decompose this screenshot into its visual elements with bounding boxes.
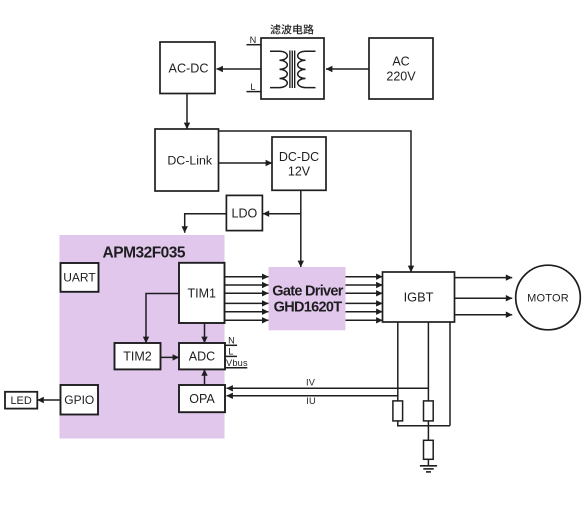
- svg-text:GPIO: GPIO: [64, 393, 94, 407]
- wire gate signal G1 Gate Driver to IGBT: [346, 276, 383, 278]
- wire gate signal G6 Gate Driver to IGBT: [346, 319, 383, 321]
- block OPA: [179, 385, 225, 412]
- pin Vbus (ADC input): [225, 358, 248, 368]
- block LED indicator: [5, 392, 37, 409]
- wire filter to AC-DC: [217, 68, 262, 70]
- svg-text:L: L: [250, 82, 255, 92]
- pin N (ADC input): [225, 336, 237, 346]
- svg-text:Gate Driver: Gate Driver: [272, 284, 344, 300]
- block LDO regulator: [226, 195, 262, 230]
- MCU block APM32F035 (background region): [60, 235, 225, 439]
- svg-text:ADC: ADC: [189, 350, 215, 364]
- wire motor phase 3 IGBT to MOTOR: [455, 314, 513, 316]
- wire IGBT leg U: [397, 322, 399, 401]
- svg-text:N: N: [250, 35, 257, 45]
- wire bus to resistor R3: [427, 426, 429, 441]
- svg-text:OPA: OPA: [189, 392, 215, 406]
- wire GPIO to LED: [37, 399, 59, 401]
- wire DC-DC to Gate Driver (12V): [300, 190, 302, 267]
- svg-text:LED: LED: [10, 395, 31, 407]
- svg-text:220V: 220V: [386, 69, 416, 83]
- block AC-DC converter: [160, 42, 215, 94]
- label 滤波电路 (filter circuit): [270, 24, 313, 34]
- wire PWM2 TIM1 to Gate Driver: [225, 284, 269, 286]
- wire motor phase 1 IGBT to MOTOR: [455, 277, 513, 279]
- svg-text:N: N: [228, 336, 235, 346]
- wire shunt U to bus: [397, 421, 399, 426]
- svg-text:IGBT: IGBT: [404, 290, 434, 305]
- wire PWM3 TIM1 to Gate Driver: [225, 292, 269, 294]
- svg-text:TIM1: TIM1: [188, 286, 217, 300]
- block DC-DC 12V: [272, 137, 326, 190]
- ground symbol: [420, 466, 437, 472]
- terminal L (filter live stub): [247, 82, 262, 92]
- svg-text:12V: 12V: [288, 165, 311, 179]
- wire PWM1 TIM1 to Gate Driver: [225, 276, 269, 278]
- wire LDO to MCU: [185, 214, 227, 233]
- svg-text:DC-DC: DC-DC: [279, 150, 319, 164]
- wire PWM5 TIM1 to Gate Driver: [225, 311, 269, 313]
- svg-text:UART: UART: [63, 271, 96, 285]
- wire motor phase 2 IGBT to MOTOR: [455, 297, 513, 299]
- svg-text:AC: AC: [392, 55, 409, 69]
- wire IGBT leg W: [449, 322, 451, 426]
- wire bottom bus: [397, 425, 450, 427]
- wire IU current sense to OPA: [227, 396, 398, 406]
- motor M: [516, 265, 581, 330]
- svg-text:MOTOR: MOTOR: [527, 293, 569, 305]
- wire gate signal G4 Gate Driver to IGBT: [346, 302, 383, 304]
- resistor R3 (to ground): [424, 440, 434, 459]
- wire PWM6 TIM1 to Gate Driver: [225, 319, 269, 321]
- wire gate signal G3 Gate Driver to IGBT: [346, 292, 383, 294]
- wire gate signal G2 Gate Driver to IGBT: [346, 284, 383, 286]
- svg-text:DC-Link: DC-Link: [167, 154, 213, 168]
- wire TIM2 to ADC: [161, 356, 180, 358]
- svg-text:LDO: LDO: [232, 207, 258, 221]
- gate driver U2 GHD1620T (purple block): [269, 267, 346, 330]
- shunt resistor RV: [424, 401, 434, 421]
- wire AC-DC to DC-Link: [186, 93, 188, 129]
- svg-text:IU: IU: [306, 396, 316, 406]
- wire TIM1 to ADC: [204, 323, 206, 343]
- block TIM2: [115, 343, 161, 369]
- wire IV current sense to OPA: [227, 378, 429, 389]
- svg-text:TIM2: TIM2: [123, 350, 152, 364]
- wire DC-Link to IGBT (DC bus): [219, 131, 412, 272]
- svg-text:AC-DC: AC-DC: [169, 61, 209, 75]
- terminal N (filter neutral stub): [247, 35, 262, 45]
- wire R3 to ground: [427, 459, 429, 466]
- block DC-Link: [155, 129, 219, 191]
- block AC 220V source: [369, 38, 433, 99]
- wire IGBT leg V: [427, 322, 429, 401]
- block TIM1: [179, 263, 225, 323]
- block IGBT bridge: [383, 272, 455, 322]
- wire AC220V to filter: [326, 68, 369, 70]
- wire DC-DC branch to LDO: [263, 213, 301, 215]
- wire gate signal G5 Gate Driver to IGBT: [346, 311, 383, 313]
- block GPIO: [61, 385, 99, 415]
- shunt resistor RU: [393, 401, 403, 421]
- wire TIM1 to TIM2: [146, 294, 179, 344]
- wire OPA to ADC: [204, 369, 206, 385]
- wire DC-Link to DC-DC: [219, 162, 273, 164]
- block ADC: [179, 343, 225, 369]
- svg-text:Vbus: Vbus: [226, 358, 248, 368]
- svg-text:APM32F035: APM32F035: [103, 245, 186, 262]
- filter box (EMI filter): [261, 38, 324, 99]
- wire PWM4 TIM1 to Gate Driver: [225, 302, 269, 304]
- svg-text:IV: IV: [306, 378, 316, 388]
- wire shunt V to bus: [427, 421, 429, 426]
- transformer T1 (common-mode choke): [270, 51, 316, 89]
- block UART: [61, 263, 99, 292]
- svg-text:GHD1620T: GHD1620T: [274, 300, 343, 316]
- pin L (ADC input): [225, 347, 237, 357]
- svg-text:L: L: [228, 347, 233, 357]
